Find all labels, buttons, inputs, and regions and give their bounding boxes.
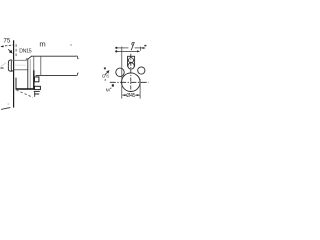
pipe break hook top (76, 56, 78, 59)
faint diagonal above tick (1, 63, 6, 67)
dimension 75 left arrowhead (1, 45, 4, 47)
extension line right bottom (139, 79, 141, 99)
outlet fitting rect (35, 86, 41, 89)
body right edge upper (33, 56, 35, 70)
circle in spout top (129, 58, 134, 63)
stem mid faint line (14, 64, 26, 66)
dashed diagonal leader (16, 90, 32, 97)
body chamfer (28, 56, 32, 59)
pipe bottom edge (36, 74, 77, 76)
svg-text:M: M (106, 88, 110, 94)
stem bottom line (14, 69, 29, 71)
wall line (13, 40, 15, 107)
faint tick near wall bottom (8, 103, 9, 104)
centerline symbol c (132, 42, 134, 45)
pipe break hook bottom (76, 73, 78, 76)
top right corner dash (144, 45, 146, 46)
svg-text:m: m (39, 40, 45, 49)
small circle right (138, 67, 145, 74)
side port square (35, 77, 39, 82)
lower finished wall solid edge (15, 78, 17, 90)
pipe seam vertical (40, 56, 42, 75)
stem cap vertical (25, 59, 27, 61)
leader arrow to left circle (105, 71, 109, 75)
top dim2 left end blob (115, 50, 117, 52)
label M dot (110, 88, 111, 89)
dimension 75 line (1, 45, 13, 47)
big circle (122, 73, 141, 92)
knob top flange to wall (11, 59, 13, 61)
spout rect top edge (127, 55, 135, 57)
handle knob (8, 60, 11, 71)
top dim line 2 (116, 50, 137, 52)
stem top line (14, 59, 27, 61)
bottom dim left line (122, 94, 126, 96)
body inner plate line (29, 59, 31, 88)
long extension line left (121, 47, 123, 99)
top dim1 right arrowhead (143, 47, 146, 49)
bottom stub top line (34, 91, 40, 93)
svg-text:Ø45: Ø45 (126, 93, 135, 99)
body right edge lower thick (33, 70, 35, 89)
label 5 blob top left (104, 67, 106, 69)
finished wall dashed line (15, 44, 17, 57)
knob bottom flange to wall (11, 70, 14, 72)
leader arrowhead to wall (8, 49, 12, 53)
small circle left (116, 68, 124, 76)
small dot right of m (71, 44, 72, 45)
bottom dim right line (135, 94, 140, 96)
centerline symbol diagonal (131, 42, 134, 50)
bottom stub mid bar (34, 93, 39, 95)
circle in spout bottom (128, 63, 134, 69)
stem cap horizontal (26, 58, 28, 60)
top dim2 right arrowhead (137, 50, 140, 52)
extension tick right top (140, 47, 142, 51)
left edge tick at knob level (0, 67, 3, 69)
horizontal centerline (110, 81, 149, 83)
top dim1 left end blob (115, 47, 117, 49)
bottom dim right arrowhead (137, 94, 140, 96)
wall bottom slant tick (1, 108, 10, 110)
top dim line 1 left part (116, 47, 128, 49)
small dot below label (105, 79, 106, 80)
svg-text:75: 75 (3, 38, 10, 45)
spout rect right edge (134, 56, 136, 66)
body top edge (32, 55, 77, 57)
bottom dim left arrowhead (122, 94, 125, 96)
body bottom thick line (16, 88, 35, 90)
dark blob under centerline (112, 84, 114, 86)
svg-text:DN15: DN15 (19, 48, 31, 54)
bottom stub vertical (34, 92, 36, 97)
body front plate edge (27, 59, 29, 89)
svg-text:G½: G½ (102, 73, 110, 79)
top dim line 1 right part (135, 47, 143, 49)
vertical centerline (130, 54, 132, 94)
spout rect left edge (127, 56, 129, 66)
